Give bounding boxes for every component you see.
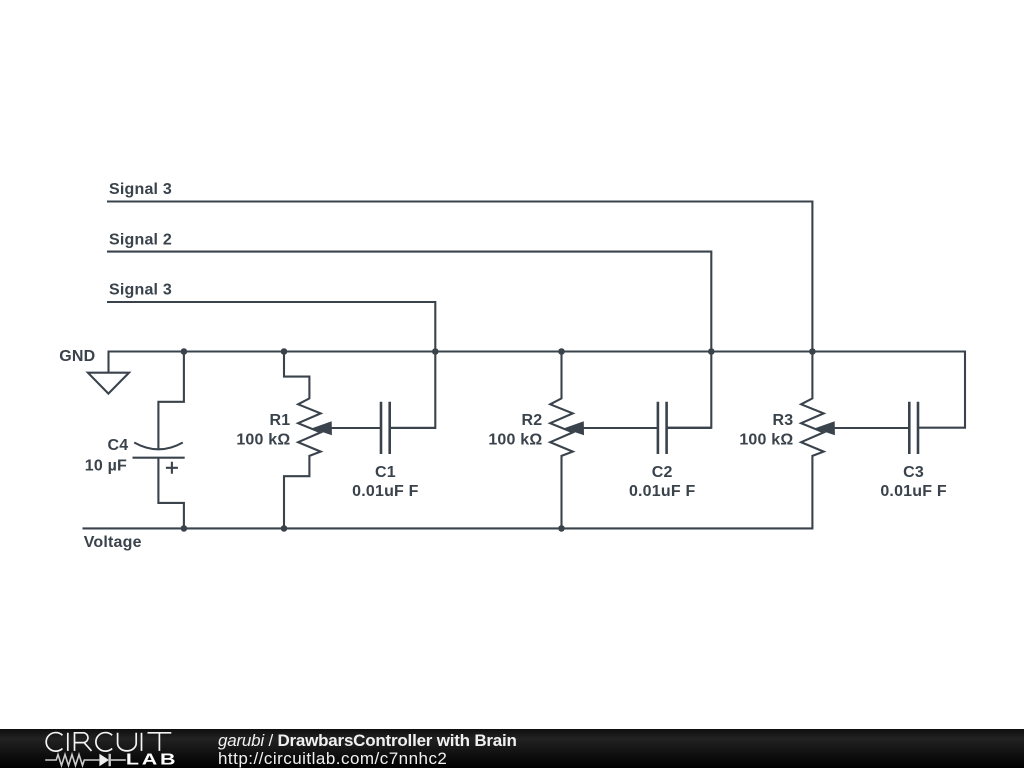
svg-text:100 kΩ: 100 kΩ bbox=[236, 431, 290, 448]
svg-text:100 kΩ: 100 kΩ bbox=[739, 431, 793, 448]
wire Signal 3 (lower) net bbox=[107, 302, 435, 428]
capacitor C1 bbox=[381, 402, 390, 454]
potentiometer R1 bbox=[284, 352, 321, 529]
wire GND net bbox=[108, 352, 966, 428]
svg-text:Voltage: Voltage bbox=[84, 534, 142, 551]
svg-text:0.01uF F: 0.01uF F bbox=[880, 483, 947, 500]
svg-text:C4: C4 bbox=[107, 437, 128, 454]
svg-text:R3: R3 bbox=[773, 412, 794, 429]
wiper R1 bbox=[330, 427, 381, 429]
svg-text:0.01uF F: 0.01uF F bbox=[629, 483, 696, 500]
logo diode triangle bbox=[99, 754, 109, 766]
ground symbol bbox=[88, 373, 129, 394]
capacitor C3 bbox=[909, 402, 918, 454]
svg-text:C1: C1 bbox=[375, 464, 396, 481]
wiper R3 bbox=[833, 427, 909, 429]
wire GND stub bbox=[107, 352, 109, 373]
capacitor C4 bbox=[134, 443, 183, 450]
svg-text:Signal 3: Signal 3 bbox=[109, 181, 172, 198]
svg-text:C3: C3 bbox=[903, 464, 924, 481]
svg-text:R1: R1 bbox=[270, 412, 291, 429]
junction dots Voltage line bbox=[181, 525, 188, 532]
svg-text:Signal 3: Signal 3 bbox=[109, 282, 172, 299]
svg-text:http://circuitlab.com/c7nnhc2: http://circuitlab.com/c7nnhc2 bbox=[218, 749, 447, 768]
logo resistor-diode glyph bbox=[45, 754, 126, 766]
wire C4 bottom bbox=[158, 458, 184, 528]
wire Voltage net bbox=[83, 527, 814, 529]
svg-text:C2: C2 bbox=[652, 464, 673, 481]
potentiometer R3 bbox=[801, 352, 824, 529]
svg-text:0.01uF F: 0.01uF F bbox=[352, 483, 419, 500]
junction dots GND line bbox=[181, 348, 188, 355]
wire C2 right bbox=[667, 427, 712, 429]
potentiometer R2 bbox=[550, 352, 573, 529]
svg-text:garubi / DrawbarsController wi: garubi / DrawbarsController with Brain bbox=[218, 731, 517, 750]
capacitor C2 bbox=[658, 402, 667, 454]
svg-text:100 kΩ: 100 kΩ bbox=[488, 431, 542, 448]
wiper R2 bbox=[582, 427, 658, 429]
wire Signal 3 (top) net bbox=[107, 202, 812, 352]
wire C1 right bbox=[390, 427, 436, 429]
svg-text:LAB: LAB bbox=[126, 750, 178, 768]
svg-text:Signal 2: Signal 2 bbox=[109, 231, 172, 248]
wire C4 top bbox=[158, 352, 184, 450]
svg-text:GND: GND bbox=[59, 348, 95, 365]
wire Signal 2 net bbox=[107, 252, 711, 428]
logo CIRCUIT lettering bbox=[46, 733, 171, 752]
svg-text:10 µF: 10 µF bbox=[85, 458, 127, 475]
svg-text:R2: R2 bbox=[522, 412, 543, 429]
